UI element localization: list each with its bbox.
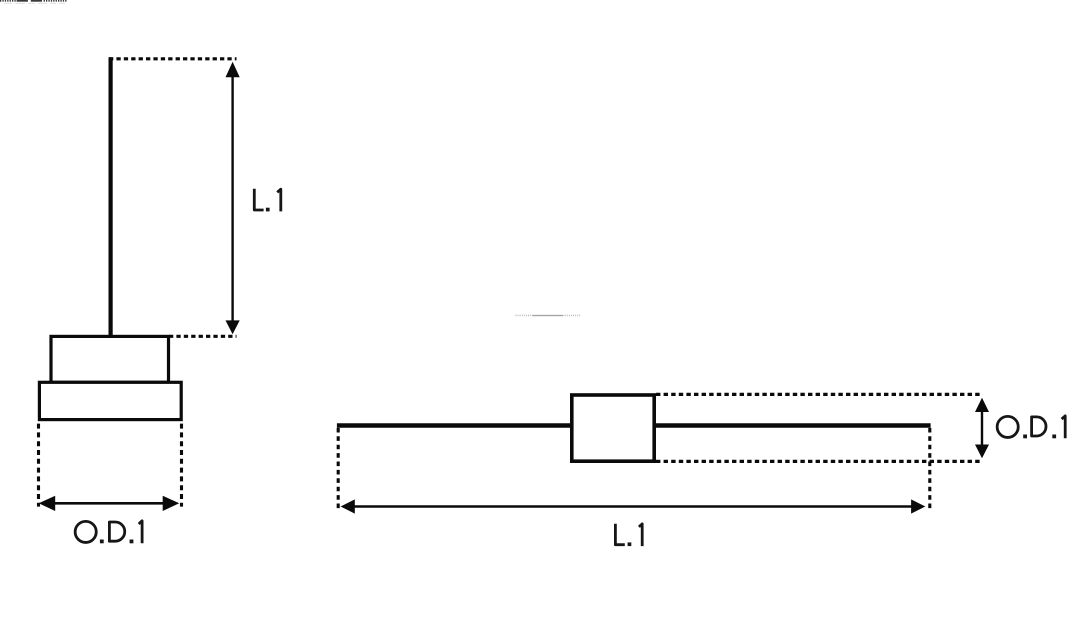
cropped text artifact faint second row bbox=[4, 3, 65, 4]
cropped text artifact row (top-left edge) bbox=[0, 0, 67, 2]
extension dashed line (bottom of body to O.D.1 arrow) bbox=[656, 460, 983, 463]
diode base (lower body rectangle) bbox=[39, 382, 181, 419]
dimension line O.D.1 (vertical double arrow, right figure) bbox=[975, 398, 989, 459]
diode body (rectangle on wire) bbox=[572, 395, 654, 461]
label O.D.1 (left figure) bbox=[75, 521, 142, 544]
faint gray watermark line (center) bbox=[515, 315, 580, 317]
extension dashed line (left wire end, down) bbox=[337, 428, 340, 509]
extension dashed line (left, below base) bbox=[37, 424, 40, 507]
lead wire (horizontal, through body) bbox=[337, 423, 931, 428]
label L.1 (left figure) bbox=[254, 189, 280, 212]
extension dashed line (top of body to O.D.1 arrow) bbox=[656, 393, 983, 396]
extension dashed line (right wire end, down) bbox=[928, 428, 931, 509]
lead wire (vertical) bbox=[108, 57, 112, 338]
extension dashed line (top, lead tip to dimension line) bbox=[109, 57, 237, 60]
dimension line O.D.1 (horizontal double arrow) bbox=[39, 496, 180, 511]
label L.1 (right figure) bbox=[615, 524, 642, 546]
extension dashed line (cap top to dimension line) bbox=[169, 335, 237, 338]
diode cap (upper body rectangle) bbox=[51, 336, 169, 382]
dimension line L.1 (vertical double arrow) bbox=[226, 62, 240, 334]
label O.D.1 (right figure) bbox=[997, 416, 1065, 438]
dimension line L.1 (horizontal double arrow, right figure) bbox=[341, 499, 926, 513]
extension dashed line (right, below base) bbox=[180, 424, 183, 507]
